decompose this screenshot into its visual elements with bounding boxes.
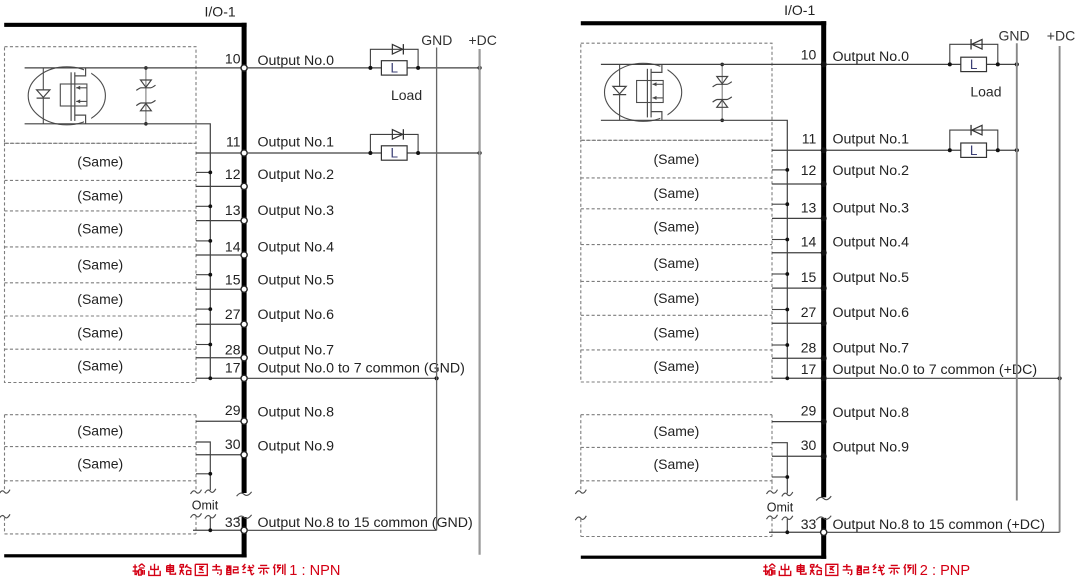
NPN diagram: MOSFET drain stub xyxy=(75,68,91,76)
NPN diagram: common bus junction dot 6 xyxy=(208,343,212,347)
svg-text:L: L xyxy=(390,146,398,161)
PNP diagram: pin 13 terminal node xyxy=(821,215,827,221)
NPN diagram: zener diode ZD2 (lower) xyxy=(141,104,152,111)
PNP diagram: pin 17 wire xyxy=(772,377,821,379)
svg-text:Output No.5: Output No.5 xyxy=(258,273,335,289)
svg-text:Output No.4: Output No.4 xyxy=(258,240,335,256)
PNP diagram: pin 33 wire xyxy=(769,531,821,533)
PNP diagram: pin 33 bus junction dot xyxy=(785,530,789,534)
PNP diagram: pin 29 terminal node xyxy=(821,419,827,425)
NPN diagram: GND rail xyxy=(436,48,438,531)
svg-text:(Same): (Same) xyxy=(77,358,123,374)
PNP diagram: common bus junction dot 2 xyxy=(785,202,789,206)
PNP diagram: pin 29 wire xyxy=(772,421,821,423)
NPN diagram: cell source wire to common bus xyxy=(25,124,211,378)
NPN diagram: pin 14 terminal node xyxy=(241,252,247,258)
PNP diagram: lower common bus lower part xyxy=(786,519,788,532)
svg-text:(Same): (Same) xyxy=(653,185,699,201)
PNP diagram: pin 14 wire xyxy=(772,252,821,254)
PNP diagram: lower bus break hooks xyxy=(782,492,793,496)
PNP diagram: pin 28 wire xyxy=(772,357,821,359)
svg-text:30: 30 xyxy=(801,437,817,453)
svg-text:Omit: Omit xyxy=(767,501,794,515)
PNP diagram: load branch right dot xyxy=(996,148,1000,152)
PNP diagram: connector pin bar lower segment xyxy=(821,518,826,559)
NPN diagram: common stub from (Same) box 3 xyxy=(196,240,210,242)
svg-text:2 : PNP: 2 : PNP xyxy=(920,563,970,579)
NPN diagram: pin 12 terminal node xyxy=(241,183,247,189)
NPN diagram: common stub from (Same) box 2 xyxy=(196,205,210,207)
svg-text:33: 33 xyxy=(225,514,241,530)
NPN diagram: common bus junction dot 4 xyxy=(208,273,212,277)
PNP diagram: lower bus junction dot xyxy=(785,475,789,479)
PNP diagram: pin 12 terminal node xyxy=(821,181,827,187)
PNP diagram: common stub from (Same) box 1 xyxy=(772,169,787,171)
svg-text:Output No.7: Output No.7 xyxy=(258,342,335,358)
PNP diagram: load supply junction dot xyxy=(1015,62,1019,66)
PNP diagram: pin 11 wire xyxy=(772,149,821,151)
PNP diagram: (Same) repeated-circuit dashed boxes outputs 1-7 xyxy=(581,140,772,382)
svg-text:17: 17 xyxy=(801,361,817,377)
svg-text:(Same): (Same) xyxy=(77,324,123,340)
PNP diagram: common bus junction dot 1 xyxy=(785,168,789,172)
NPN diagram: LED cathode lead xyxy=(42,98,44,124)
NPN diagram: dashed box left-edge break xyxy=(4,481,6,491)
PNP diagram: lower common bus upper part xyxy=(772,443,787,494)
NPN diagram: pin 17 common wire to rail xyxy=(247,377,437,379)
PNP diagram: common bus junction dot 3 xyxy=(785,238,789,242)
PNP diagram: zener diode ZD1 (upper) xyxy=(717,77,728,84)
svg-text:13: 13 xyxy=(225,202,241,218)
NPN diagram: lower bus junction dot xyxy=(208,472,212,476)
svg-text:Output No.8 to 15 common (+DC): Output No.8 to 15 common (+DC) xyxy=(833,517,1046,533)
NPN diagram: common stub from (Same) box 1 xyxy=(196,171,210,173)
PNP diagram: connector pin bar break hook top xyxy=(816,496,831,500)
NPN diagram: connector bottom bar xyxy=(4,554,246,557)
svg-text:Output No.0: Output No.0 xyxy=(833,49,910,65)
NPN diagram: pin 13 wire xyxy=(196,220,242,222)
PNP diagram: pin 13 wire xyxy=(772,217,821,219)
svg-text:I/O-1: I/O-1 xyxy=(784,2,815,18)
NPN diagram: connector pin bar break hook top xyxy=(237,492,252,496)
NPN diagram: load branch right dot xyxy=(416,151,420,155)
svg-text:15: 15 xyxy=(225,272,241,288)
svg-text:(Same): (Same) xyxy=(77,422,123,438)
PNP caption 输出电路图与配线示例2 : PNP xyxy=(763,563,970,579)
NPN diagram: dashed box bottom edge xyxy=(5,533,197,535)
PNP diagram: load box L10 xyxy=(961,57,987,71)
PNP diagram: flyback diode D11 xyxy=(972,125,982,135)
PNP diagram: pin 28 terminal node xyxy=(821,355,827,361)
NPN diagram: pin 17 terminal node xyxy=(241,375,247,381)
svg-text:(Same): (Same) xyxy=(77,154,123,170)
PNP diagram: MOSFET driver rectangle xyxy=(637,81,664,103)
NPN diagram: common bus junction dot 1 xyxy=(208,171,212,175)
PNP diagram: pin 14 terminal node xyxy=(821,250,827,256)
NPN diagram: LED diode D0 xyxy=(37,90,50,98)
PNP diagram: +DC rail xyxy=(1059,46,1061,532)
PNP diagram: common bus junction dot 4 xyxy=(785,272,789,276)
svg-text:11: 11 xyxy=(226,134,241,150)
NPN diagram: (Same) repeated-circuit dashed boxes outputs 1-7 xyxy=(5,143,197,382)
PNP diagram: connector top bar xyxy=(581,21,826,25)
PNP diagram: load L10 free-wheel branch xyxy=(950,44,998,64)
NPN diagram: pin 17 rail junction dot xyxy=(435,376,439,380)
PNP diagram: MOSFET body arrow upper xyxy=(653,83,664,85)
svg-text:27: 27 xyxy=(225,306,241,322)
NPN diagram: (Same) dashed boxes outputs 8-9 xyxy=(5,415,197,481)
NPN diagram: pin 10 wire xyxy=(25,67,242,69)
NPN diagram: load L11 free-wheel branch xyxy=(370,134,418,153)
svg-text:14: 14 xyxy=(225,239,241,255)
svg-text:Output No.1: Output No.1 xyxy=(258,135,335,151)
PNP diagram: common stub from (Same) box 3 xyxy=(772,239,787,241)
PNP diagram: load branch left dot xyxy=(948,62,952,66)
svg-text:GND: GND xyxy=(998,28,1029,44)
NPN diagram: flyback diode D11 xyxy=(392,130,402,140)
PNP diagram: common stub from (Same) box 2 xyxy=(772,203,787,205)
NPN diagram: zener diode ZD1 (upper) xyxy=(141,80,152,87)
NPN diagram: pin 28 terminal node xyxy=(241,355,247,361)
PNP diagram: lower common stub 2 xyxy=(772,476,787,478)
PNP diagram: pin 17 rail junction dot xyxy=(1058,376,1062,380)
svg-text:10: 10 xyxy=(225,50,241,66)
PNP diagram: common stub from (Same) box 6 xyxy=(772,344,787,346)
NPN diagram: flyback diode D10 xyxy=(392,45,402,55)
svg-text:(Same): (Same) xyxy=(77,456,123,472)
NPN diagram: common stub from (Same) box 6 xyxy=(196,344,210,346)
PNP diagram: pin 30 wire xyxy=(772,455,821,457)
svg-text:Output No.0 to 7 common (+DC): Output No.0 to 7 common (+DC) xyxy=(833,362,1038,378)
svg-text:Load: Load xyxy=(391,87,422,103)
NPN diagram: lower common stub 2 xyxy=(196,473,210,475)
svg-text:Output No.4: Output No.4 xyxy=(833,235,910,251)
PNP diagram: pin 11 wire to load xyxy=(826,149,1017,151)
NPN diagram: output circuit cell dashed box xyxy=(5,47,197,144)
svg-text:Output No.9: Output No.9 xyxy=(833,440,910,456)
svg-text:Output No.5: Output No.5 xyxy=(833,270,910,286)
NPN diagram: load branch left dot xyxy=(368,151,372,155)
PNP diagram: pin 27 terminal node xyxy=(821,320,827,326)
NPN diagram: pin 14 wire xyxy=(196,254,242,256)
NPN diagram: load box L10 xyxy=(381,61,407,75)
svg-text:(Same): (Same) xyxy=(653,255,699,271)
svg-text:30: 30 xyxy=(225,436,241,452)
PNP diagram: junction node TVS top xyxy=(720,63,724,67)
NPN diagram: load branch right dot xyxy=(416,66,420,70)
svg-text:Output No.2: Output No.2 xyxy=(258,167,335,183)
NPN diagram: common stub from (Same) box 4 xyxy=(196,274,210,276)
svg-text:1 : NPN: 1 : NPN xyxy=(289,563,340,579)
NPN diagram: pin 33 terminal node xyxy=(241,527,247,533)
NPN diagram: TVS vertical lead xyxy=(145,68,147,124)
NPN diagram: common bus junction dot 2 xyxy=(208,204,212,208)
svg-text:Output No.8: Output No.8 xyxy=(258,405,335,421)
NPN diagram: photocoupler ellipse U0 xyxy=(28,67,105,125)
svg-text:11: 11 xyxy=(802,131,817,147)
svg-text:(Same): (Same) xyxy=(653,423,699,439)
svg-text:(Same): (Same) xyxy=(653,290,699,306)
svg-text:17: 17 xyxy=(225,359,241,375)
NPN diagram: dashed box right-edge break xyxy=(195,481,197,491)
PNP diagram: photocoupler ellipse U0 xyxy=(605,63,682,121)
PNP diagram: pin 10 wire xyxy=(601,63,821,65)
svg-text:I/O-1: I/O-1 xyxy=(205,4,236,20)
NPN diagram: pin 15 wire xyxy=(196,288,242,290)
PNP diagram: load box L11 xyxy=(961,143,987,157)
NPN diagram: pin 11 wire to load xyxy=(247,152,480,154)
PNP diagram: common bus junction dot 6 xyxy=(785,343,789,347)
NPN diagram: lower common bus lower part xyxy=(209,518,211,531)
svg-text:28: 28 xyxy=(225,341,241,357)
NPN diagram: common bus to pin-17 junction dot xyxy=(208,376,212,380)
PNP diagram: pin 30 terminal node xyxy=(821,453,827,459)
svg-text:L: L xyxy=(970,57,978,72)
PNP diagram: LED diode D0 xyxy=(613,86,626,94)
PNP diagram: pin 10 wire to load xyxy=(826,63,1017,65)
svg-text:Output No.7: Output No.7 xyxy=(833,340,910,356)
NPN diagram: load L10 free-wheel branch xyxy=(370,49,418,68)
PNP diagram: load L11 free-wheel branch xyxy=(950,130,998,150)
NPN diagram: pin 33 bus junction dot xyxy=(208,528,212,532)
svg-text:(Same): (Same) xyxy=(77,187,123,203)
svg-text:GND: GND xyxy=(421,32,452,48)
NPN diagram: pin 12 wire xyxy=(196,185,242,187)
NPN diagram: pin 15 terminal node xyxy=(241,286,247,292)
PNP diagram: dashed box left-edge break xyxy=(580,481,582,491)
svg-text:27: 27 xyxy=(801,304,817,320)
PNP diagram: pin 33 terminal node xyxy=(821,529,827,535)
PNP diagram: MOSFET gate bars Q0 xyxy=(646,69,648,118)
svg-text:29: 29 xyxy=(801,403,817,419)
PNP diagram: cell source wire to common bus xyxy=(601,120,787,378)
PNP diagram: LED cathode lead xyxy=(619,95,621,121)
NPN diagram: lower bus break hooks xyxy=(205,489,216,493)
svg-text:12: 12 xyxy=(225,166,241,182)
PNP diagram: common bus to pin-17 junction dot xyxy=(785,376,789,380)
NPN diagram: pin 30 terminal node xyxy=(241,452,247,458)
NPN diagram: junction node TVS top xyxy=(144,66,148,70)
PNP diagram: dashed box right-edge break xyxy=(771,481,773,491)
svg-text:Output No.6: Output No.6 xyxy=(258,307,335,323)
svg-text:Output No.3: Output No.3 xyxy=(833,200,910,216)
svg-text:Output No.9: Output No.9 xyxy=(258,438,335,454)
PNP diagram: pin 17 common wire to rail xyxy=(826,377,1059,379)
svg-text:Output No.0: Output No.0 xyxy=(258,53,335,69)
svg-text:15: 15 xyxy=(801,269,817,285)
NPN diagram: pin 33 wire xyxy=(193,529,242,531)
svg-text:(Same): (Same) xyxy=(77,291,123,307)
svg-text:Load: Load xyxy=(970,83,1001,99)
svg-text:Output No.8 to 15 common (GND): Output No.8 to 15 common (GND) xyxy=(258,515,473,531)
svg-text:(Same): (Same) xyxy=(77,257,123,273)
PNP diagram: load branch right dot xyxy=(996,62,1000,66)
PNP diagram: pin 33 common wire to rail xyxy=(826,531,1059,533)
svg-text:Output No.1: Output No.1 xyxy=(833,132,910,148)
PNP diagram: pin 10 terminal node xyxy=(821,61,827,67)
PNP diagram: pin 15 terminal node xyxy=(821,285,827,291)
svg-text:(Same): (Same) xyxy=(653,151,699,167)
PNP diagram: TVS vertical lead xyxy=(721,64,723,120)
NPN diagram: connector pin bar lower segment xyxy=(242,517,247,557)
PNP diagram: pin 12 wire xyxy=(772,183,821,185)
PNP diagram: LED anode lead xyxy=(619,64,621,86)
NPN diagram: MOSFET gate bars Q0 xyxy=(70,72,72,121)
NPN diagram: pin 27 terminal node xyxy=(241,321,247,327)
PNP diagram: flyback diode D10 xyxy=(972,40,982,50)
PNP diagram: MOSFET drain stub xyxy=(651,64,667,72)
svg-text:+DC: +DC xyxy=(468,32,496,48)
svg-text:10: 10 xyxy=(801,47,817,63)
svg-text:29: 29 xyxy=(225,402,241,418)
svg-text:12: 12 xyxy=(801,162,817,178)
NPN diagram: pin 29 wire xyxy=(196,420,242,422)
svg-text:+DC: +DC xyxy=(1047,28,1075,44)
PNP diagram: dashed box bottom edge xyxy=(581,536,772,538)
PNP diagram: junction node TVS bottom xyxy=(720,119,724,123)
svg-text:(Same): (Same) xyxy=(77,221,123,237)
NPN diagram: MOSFET source stub xyxy=(75,115,91,124)
NPN diagram: load box L11 xyxy=(381,146,407,160)
PNP diagram: MOSFET body arrow lower xyxy=(653,97,664,99)
PNP diagram: pin 11 terminal node xyxy=(821,147,827,153)
PNP diagram: connector pin bar break hook bottom xyxy=(816,516,831,520)
NPN diagram: connector pin bar upper segment xyxy=(242,23,247,493)
NPN diagram: pin 11 terminal node xyxy=(241,150,247,156)
svg-text:(Same): (Same) xyxy=(653,324,699,340)
NPN diagram: pin 28 wire xyxy=(196,357,242,359)
NPN diagram: MOSFET body arrow lower xyxy=(76,100,87,102)
PNP diagram: load supply junction dot xyxy=(1015,148,1019,152)
PNP diagram: pin 15 wire xyxy=(772,287,821,289)
svg-text:Output No.6: Output No.6 xyxy=(833,305,910,321)
NPN diagram: MOSFET body arrow upper xyxy=(76,87,87,89)
svg-text:(Same): (Same) xyxy=(653,219,699,235)
svg-text:(Same): (Same) xyxy=(653,358,699,374)
svg-text:33: 33 xyxy=(801,516,817,532)
NPN diagram: load supply junction dot xyxy=(478,151,482,155)
PNP diagram: pin 27 wire xyxy=(772,322,821,324)
NPN diagram: MOSFET driver rectangle xyxy=(60,84,87,106)
NPN diagram: LED anode lead xyxy=(42,68,44,90)
NPN diagram: pin 11 wire xyxy=(196,152,242,154)
NPN diagram: pin 30 wire xyxy=(196,454,242,456)
svg-text:Output No.3: Output No.3 xyxy=(258,203,335,219)
NPN diagram: pin 10 terminal node xyxy=(241,65,247,71)
PNP diagram: output circuit cell dashed box xyxy=(581,43,772,140)
NPN diagram: connector pin bar break hook bottom xyxy=(237,515,252,519)
NPN diagram: load supply junction dot xyxy=(478,66,482,70)
NPN diagram: pin 29 terminal node xyxy=(241,418,247,424)
svg-text:14: 14 xyxy=(801,234,817,250)
NPN diagram: junction node TVS bottom xyxy=(144,122,148,126)
PNP diagram: connector pin bar upper segment xyxy=(821,21,826,497)
NPN diagram: load branch left dot xyxy=(368,66,372,70)
PNP diagram: GND rail xyxy=(1016,43,1018,500)
NPN diagram: common bus junction dot 3 xyxy=(208,239,212,243)
svg-text:Omit: Omit xyxy=(192,499,219,513)
PNP diagram: pin 17 terminal node xyxy=(821,375,827,381)
PNP diagram: common bus junction dot 5 xyxy=(785,308,789,312)
NPN diagram: pin 33 common wire to rail xyxy=(247,529,437,531)
NPN caption 输出电路图与配线示例1 : NPN xyxy=(133,563,341,579)
svg-text:L: L xyxy=(390,61,398,76)
svg-text:(Same): (Same) xyxy=(653,456,699,472)
NPN diagram: pin 10 wire to load xyxy=(247,67,480,69)
PNP diagram: zener diode ZD2 (lower) xyxy=(717,100,728,107)
NPN diagram: +DC rail xyxy=(479,49,481,555)
PNP diagram: common stub from (Same) box 5 xyxy=(772,309,787,311)
svg-text:Output No.0 to 7 common (GND): Output No.0 to 7 common (GND) xyxy=(258,360,465,376)
NPN diagram: pin 17 wire xyxy=(196,377,242,379)
PNP diagram: load branch left dot xyxy=(948,148,952,152)
svg-text:Output No.2: Output No.2 xyxy=(833,163,910,179)
PNP diagram: common stub from (Same) box 4 xyxy=(772,273,787,275)
NPN diagram: lower common bus upper part xyxy=(196,442,210,490)
NPN diagram: common bus junction dot 5 xyxy=(208,307,212,311)
PNP diagram: MOSFET source stub xyxy=(651,112,667,121)
NPN diagram: pin 27 wire xyxy=(196,323,242,325)
NPN diagram: common stub from (Same) box 5 xyxy=(196,308,210,310)
NPN diagram: pin 13 terminal node xyxy=(241,218,247,224)
svg-text:Output No.8: Output No.8 xyxy=(833,405,910,421)
PNP diagram: connector bottom bar xyxy=(581,556,826,559)
svg-text:28: 28 xyxy=(801,339,817,355)
svg-text:L: L xyxy=(970,143,978,158)
NPN diagram: connector top bar xyxy=(4,23,246,27)
svg-text:13: 13 xyxy=(801,199,817,215)
PNP diagram: (Same) dashed boxes outputs 8-9 xyxy=(581,415,772,481)
